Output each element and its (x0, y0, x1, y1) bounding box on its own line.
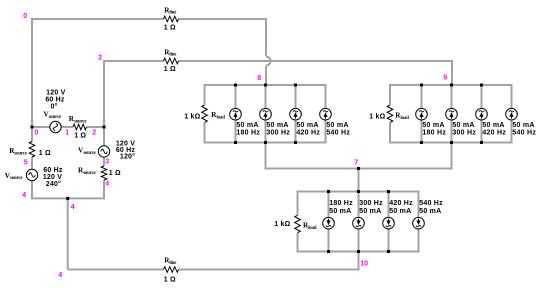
junction bottom bus source 2 (left bank) (264, 141, 267, 144)
node 3 (105, 159, 109, 166)
current source 3 (bottom bank, 50 mA 420 Hz) (383, 217, 395, 229)
label Rline3 value 1 &#937; (164, 277, 176, 284)
svg-text:540 Hz: 540 Hz (326, 130, 350, 137)
svg-text:2: 2 (92, 129, 96, 136)
svg-text:50 mA: 50 mA (422, 122, 444, 129)
svg-text:60 Hz: 60 Hz (45, 97, 65, 104)
wire source 3 bottom lead (bottom bank) (388, 229, 390, 252)
svg-text:8: 8 (257, 75, 261, 82)
wire node 4 drop to bottom row (67, 198, 69, 269)
label 50 mA (right bank src 2) (452, 122, 474, 129)
svg-text:5: 5 (24, 160, 28, 167)
wire bottom connector (node 4) (32, 197, 104, 199)
junction bottom bus source 1 (bottom bank) (327, 250, 330, 253)
current source 1 (left bank, 50 mA 180 Hz) (230, 108, 242, 120)
label Rline1 value 1 &#937; (164, 25, 176, 32)
svg-text:0°: 0° (50, 103, 57, 111)
junction top bus source 2 (bottom bank) (357, 190, 360, 193)
node 5 (24, 160, 28, 167)
label Vsource1 value 120 V (46, 90, 65, 97)
junction top bus source 1 (left bank) (234, 84, 237, 87)
label Vsource3 value 240 deg (46, 180, 61, 188)
svg-text:300 Hz: 300 Hz (266, 130, 290, 137)
label Vsource3 value 120 V (43, 174, 62, 181)
label 180 Hz (right bank src 1) (422, 130, 446, 137)
wire left bank top bus (205, 84, 326, 86)
label Vsource1 value 0 deg (50, 103, 57, 111)
svg-text:50 mA: 50 mA (236, 122, 258, 129)
voltage source Vsource3 (120 V 60 Hz 240deg) (26, 169, 37, 180)
label Rsource2 name (78, 167, 96, 176)
label 420 Hz (right bank src 3) (482, 130, 506, 137)
wire left vertical lower (Vsource3 to node 4) (31, 181, 33, 200)
wire Rload bottom lead (right bank) (389, 123, 391, 143)
wire branch A left segment (32, 126, 50, 128)
wire node 7 bus right half / node 9 drain (359, 143, 452, 169)
wire source 1 top lead (bottom bank) (328, 192, 330, 218)
svg-text:50 mA: 50 mA (266, 122, 288, 129)
wire Rload top lead (right bank) (389, 85, 391, 105)
node 2 (phase-2 corner) (98, 55, 102, 62)
svg-text:1 Ω: 1 Ω (39, 150, 51, 157)
junction node 0 / branch A (31, 126, 34, 129)
wire node 7 feed to bottom bank (358, 169, 360, 192)
svg-text:420 Hz: 420 Hz (482, 130, 506, 137)
wire bottom bank bottom bus (298, 251, 419, 252)
node 0 (branch A) (34, 129, 38, 136)
svg-text:180 Hz: 180 Hz (329, 200, 353, 207)
svg-text:1 Ω: 1 Ω (164, 25, 176, 32)
label 1 kohm (left bank) (184, 114, 200, 121)
wire bottom row (to Rline3) (68, 269, 164, 271)
wire source 4 top lead (left bank) (325, 85, 327, 108)
junction left bank drain bottom bus (264, 141, 267, 144)
node 4 (left vertical) (22, 192, 26, 199)
wire left vertical mid upper (branch to Rsource3) (31, 127, 33, 142)
label Rline2 name (164, 48, 176, 57)
label 50 mA (right bank src 4) (512, 122, 534, 129)
label Rload name (bottom bank) (303, 222, 317, 231)
svg-text:1 kΩ: 1 kΩ (274, 221, 290, 228)
svg-text:300 Hz: 300 Hz (452, 130, 476, 137)
wire source 1 bottom lead (bottom bank) (328, 229, 330, 252)
label 420 Hz (bottom bank src 3) (389, 200, 413, 207)
wire source 3 bottom lead (right bank) (481, 120, 483, 143)
node 2 (branch A) (92, 129, 96, 136)
label Rload name (right bank) (395, 112, 409, 121)
svg-text:120°: 120° (120, 153, 135, 161)
label Rsource1 value 1 &#937; (74, 133, 86, 140)
wire Rload top lead (left bank) (204, 85, 206, 105)
svg-text:540 Hz: 540 Hz (512, 130, 536, 137)
junction top bus source 2 (right bank) (450, 84, 453, 87)
svg-text:4: 4 (58, 272, 62, 279)
label Rline1 name (164, 6, 176, 15)
svg-text:1 kΩ: 1 kΩ (184, 114, 200, 121)
wire phase-2 row (node 2 corner to Rline2) (104, 60, 164, 61)
svg-text:420 Hz: 420 Hz (389, 200, 413, 207)
wire top row (Rline1 to node 8 feed) (179, 18, 267, 20)
label Vsource2 value 120 deg (120, 153, 135, 161)
svg-text:1 Ω: 1 Ω (164, 66, 176, 73)
svg-text:50 mA: 50 mA (482, 122, 504, 129)
wire source 4 bottom lead (right bank) (511, 120, 513, 143)
wire Rload bottom lead (left bank) (204, 123, 206, 143)
resistor Rline1 (164, 16, 179, 22)
label 180 Hz (left bank src 1) (236, 130, 260, 137)
wire left vertical mid (Rsource3 to Vsource3) (31, 157, 33, 169)
svg-text:50 mA: 50 mA (326, 122, 348, 129)
wire bottom row (Rline3 to node 10 riser) (179, 253, 359, 270)
junction node 7 bus / bottom bank feed (357, 167, 360, 170)
label 1 kohm (right bank) (369, 114, 385, 121)
svg-text:300 Hz: 300 Hz (359, 200, 383, 207)
label 50 mA (left bank src 2) (266, 122, 288, 129)
junction node 9 (feed into right bank) (450, 84, 453, 87)
svg-text:0: 0 (34, 129, 38, 136)
svg-text:10: 10 (360, 261, 368, 268)
wire left vertical (node 0 down to branch) (31, 18, 33, 127)
svg-text:50 mA: 50 mA (389, 208, 411, 215)
wire source 4 top lead (bottom bank) (418, 192, 420, 218)
current source 2 (bottom bank, 50 mA 300 Hz) (353, 217, 365, 229)
current source 4 (left bank, 50 mA 540 Hz) (320, 108, 332, 120)
wire source 3 top lead (bottom bank) (388, 192, 390, 218)
svg-text:1 Ω: 1 Ω (109, 170, 121, 177)
node 8 (257, 75, 261, 82)
wire right bank top bus (390, 84, 512, 86)
current source 1 (bottom bank, 50 mA 180 Hz) (323, 217, 335, 229)
label 50 mA (right bank src 3) (482, 122, 504, 129)
svg-text:120 V: 120 V (46, 90, 65, 97)
wire right vertical mid (Vsource2 to Rsource2) (103, 157, 105, 166)
junction bottom bank drain bottom bus (357, 250, 360, 253)
current source 1 (right bank, 50 mA 180 Hz) (416, 108, 428, 120)
wire bottom bank top bus (298, 191, 419, 193)
resistor Rsource1 (73, 124, 87, 130)
label Vsource2 value 60 Hz (116, 147, 136, 154)
wire phase-2 row (Rline2 to node 9 feed) (179, 61, 453, 85)
label Rsource2 value 1 &#937; (109, 170, 121, 177)
wire source 2 top lead (left bank) (265, 85, 267, 108)
label 1 kohm (bottom bank) (274, 221, 290, 228)
svg-text:1: 1 (65, 129, 69, 136)
wire left bank bottom bus (205, 142, 326, 143)
svg-text:240°: 240° (46, 180, 61, 188)
junction top bus source 1 (bottom bank) (327, 190, 330, 193)
junction bottom bus source 3 (left bank) (294, 141, 297, 144)
wire Rload top lead (bottom bank) (297, 192, 299, 216)
resistor Rload (left bank) (202, 105, 208, 122)
svg-text:540 Hz: 540 Hz (419, 200, 443, 207)
label 50 mA (right bank src 1) (422, 122, 444, 129)
label Vsource1 value 60 Hz (45, 97, 65, 104)
svg-text:180 Hz: 180 Hz (236, 130, 260, 137)
current source 3 (right bank, 50 mA 420 Hz) (476, 108, 488, 120)
node 4 (below Rsource2) (105, 181, 109, 188)
wire source 3 top lead (right bank) (481, 85, 483, 108)
wire source 1 top lead (right bank) (421, 85, 423, 108)
junction top bus source 3 (right bank) (480, 84, 483, 87)
junction node 2 branch / right vertical (103, 126, 106, 129)
label Rline3 name (164, 257, 176, 266)
voltage source Vsource1 (120 V 60 Hz 0deg) (50, 121, 61, 132)
wire top row (node 0 to Rline1) (32, 18, 164, 20)
wire node 8 feed vertical lower (265, 66, 267, 85)
voltage source Vsource2 (120 V 60 Hz 120deg) (98, 146, 109, 157)
resistor Rsource2 (101, 166, 107, 180)
label 50 mA (bottom bank src 1) (329, 208, 351, 215)
svg-text:9: 9 (443, 75, 447, 82)
wire right vertical lower (Rsource2 to node 4) (103, 180, 105, 199)
resistor Rline3 (164, 267, 179, 273)
junction node 8 (feed into left bank) (264, 84, 267, 87)
svg-text:50 mA: 50 mA (452, 122, 474, 129)
current source 4 (right bank, 50 mA 540 Hz) (506, 108, 518, 120)
node 9 (443, 75, 447, 82)
wire right bank bottom bus (390, 142, 512, 143)
junction top bus source 1 (right bank) (420, 84, 423, 87)
current source 2 (right bank, 50 mA 300 Hz) (446, 108, 458, 120)
label 50 mA (left bank src 3) (296, 122, 318, 129)
svg-text:4: 4 (71, 204, 75, 211)
label Vsource1 name (44, 111, 62, 120)
label Vsource2 value 120 V (116, 141, 135, 148)
label 180 Hz (bottom bank src 1) (329, 200, 353, 207)
svg-text:50 mA: 50 mA (329, 208, 351, 215)
wire node 8 drain to node 7 bus (266, 143, 359, 169)
resistor Rsource3 (29, 142, 35, 157)
label 540 Hz (left bank src 4) (326, 130, 350, 137)
svg-text:50 mA: 50 mA (512, 122, 534, 129)
svg-text:50 mA: 50 mA (296, 122, 318, 129)
label 50 mA (left bank src 1) (236, 122, 258, 129)
svg-text:50 mA: 50 mA (419, 208, 441, 215)
svg-text:2: 2 (98, 55, 102, 62)
svg-text:4: 4 (22, 192, 26, 199)
wire source 1 bottom lead (right bank) (421, 120, 423, 143)
junction bottom bus source 3 (bottom bank) (387, 250, 390, 253)
wire source 2 bottom lead (bottom bank) (358, 229, 360, 252)
wire branch A mid segment (Vsource1 to Rsource1) (61, 126, 73, 128)
svg-text:7: 7 (354, 159, 358, 166)
node 1 (65, 129, 69, 136)
label 50 mA (bottom bank src 2) (359, 208, 381, 215)
label Vsource2 name (78, 147, 96, 156)
svg-text:420 Hz: 420 Hz (296, 130, 320, 137)
wire source 4 bottom lead (bottom bank) (418, 229, 420, 252)
junction top bus source 2 (left bank) (264, 84, 267, 87)
svg-text:180 Hz: 180 Hz (422, 130, 446, 137)
wire source 3 top lead (left bank) (295, 85, 297, 108)
wire node 8 feed vertical upper (265, 18, 267, 56)
node 4 (bottom row) (58, 272, 62, 279)
node 7 (354, 159, 358, 166)
junction top bus source 3 (left bank) (294, 84, 297, 87)
wire source 4 top lead (right bank) (511, 85, 513, 108)
wire source 2 top lead (right bank) (451, 85, 453, 108)
label Rsource3 value 1 &#937; (39, 150, 51, 157)
label 300 Hz (right bank src 2) (452, 130, 476, 137)
junction bottom bus source 1 (left bank) (234, 141, 237, 144)
svg-text:3: 3 (105, 159, 109, 166)
svg-text:1 Ω: 1 Ω (74, 133, 86, 140)
junction bottom bus source 3 (right bank) (480, 141, 483, 144)
junction bottom bus source 2 (bottom bank) (357, 250, 360, 253)
node 10 (360, 261, 368, 268)
svg-text:120 V: 120 V (43, 174, 62, 181)
resistor Rload (right bank) (387, 105, 393, 122)
label 50 mA (bottom bank src 4) (419, 208, 441, 215)
junction bottom bank feed top bus (357, 190, 360, 193)
current source 2 (left bank, 50 mA 300 Hz) (260, 108, 272, 120)
label Rsource3 name (9, 147, 27, 156)
wire source 3 bottom lead (left bank) (295, 120, 297, 143)
svg-text:4: 4 (105, 181, 109, 188)
label 300 Hz (bottom bank src 2) (359, 200, 383, 207)
node 0 (top left) (23, 13, 27, 20)
junction bottom bus source 2 (right bank) (450, 141, 453, 144)
current source 4 (bottom bank, 50 mA 540 Hz) (413, 217, 425, 229)
svg-text:60 Hz: 60 Hz (43, 167, 63, 174)
wire hop over phase-2 line (266, 57, 271, 66)
wire right vertical upper (node 2 to Vsource2) (103, 61, 105, 146)
node 4 (below connector dot) (71, 204, 75, 211)
wire source 1 top lead (left bank) (235, 85, 237, 108)
resistor Rline2 (164, 58, 179, 64)
svg-text:1 kΩ: 1 kΩ (369, 114, 385, 121)
label 420 Hz (left bank src 3) (296, 130, 320, 137)
label Rline2 value 1 &#937; (164, 66, 176, 73)
label 540 Hz (right bank src 4) (512, 130, 536, 137)
label Rload name (left bank) (211, 111, 225, 120)
junction right bank drain bottom bus (450, 141, 453, 144)
current source 3 (left bank, 50 mA 420 Hz) (290, 108, 302, 120)
wire Rload bottom lead (bottom bank) (297, 233, 299, 252)
label Vsource3 value 60 Hz (43, 167, 63, 174)
resistor Rload (bottom bank) (295, 215, 301, 233)
svg-text:0: 0 (23, 13, 27, 20)
wire branch A right segment (87, 126, 105, 128)
label 300 Hz (left bank src 2) (266, 130, 290, 137)
wire source 2 bottom lead (right bank) (451, 120, 453, 143)
svg-text:1 Ω: 1 Ω (164, 277, 176, 284)
label 540 Hz (bottom bank src 4) (419, 200, 443, 207)
junction bottom bus source 1 (right bank) (420, 141, 423, 144)
junction top bus source 3 (bottom bank) (387, 190, 390, 193)
label 50 mA (bottom bank src 3) (389, 208, 411, 215)
label 50 mA (left bank src 4) (326, 122, 348, 129)
wire source 2 bottom lead (left bank) (265, 120, 267, 143)
wire source 2 top lead (bottom bank) (358, 192, 360, 218)
label Vsource3 name (5, 172, 23, 181)
label Rsource1 name (69, 115, 87, 124)
junction node 4 connector (66, 197, 69, 200)
svg-text:50 mA: 50 mA (359, 208, 381, 215)
wire source 4 bottom lead (left bank) (325, 120, 327, 143)
wire source 1 bottom lead (left bank) (235, 120, 237, 143)
